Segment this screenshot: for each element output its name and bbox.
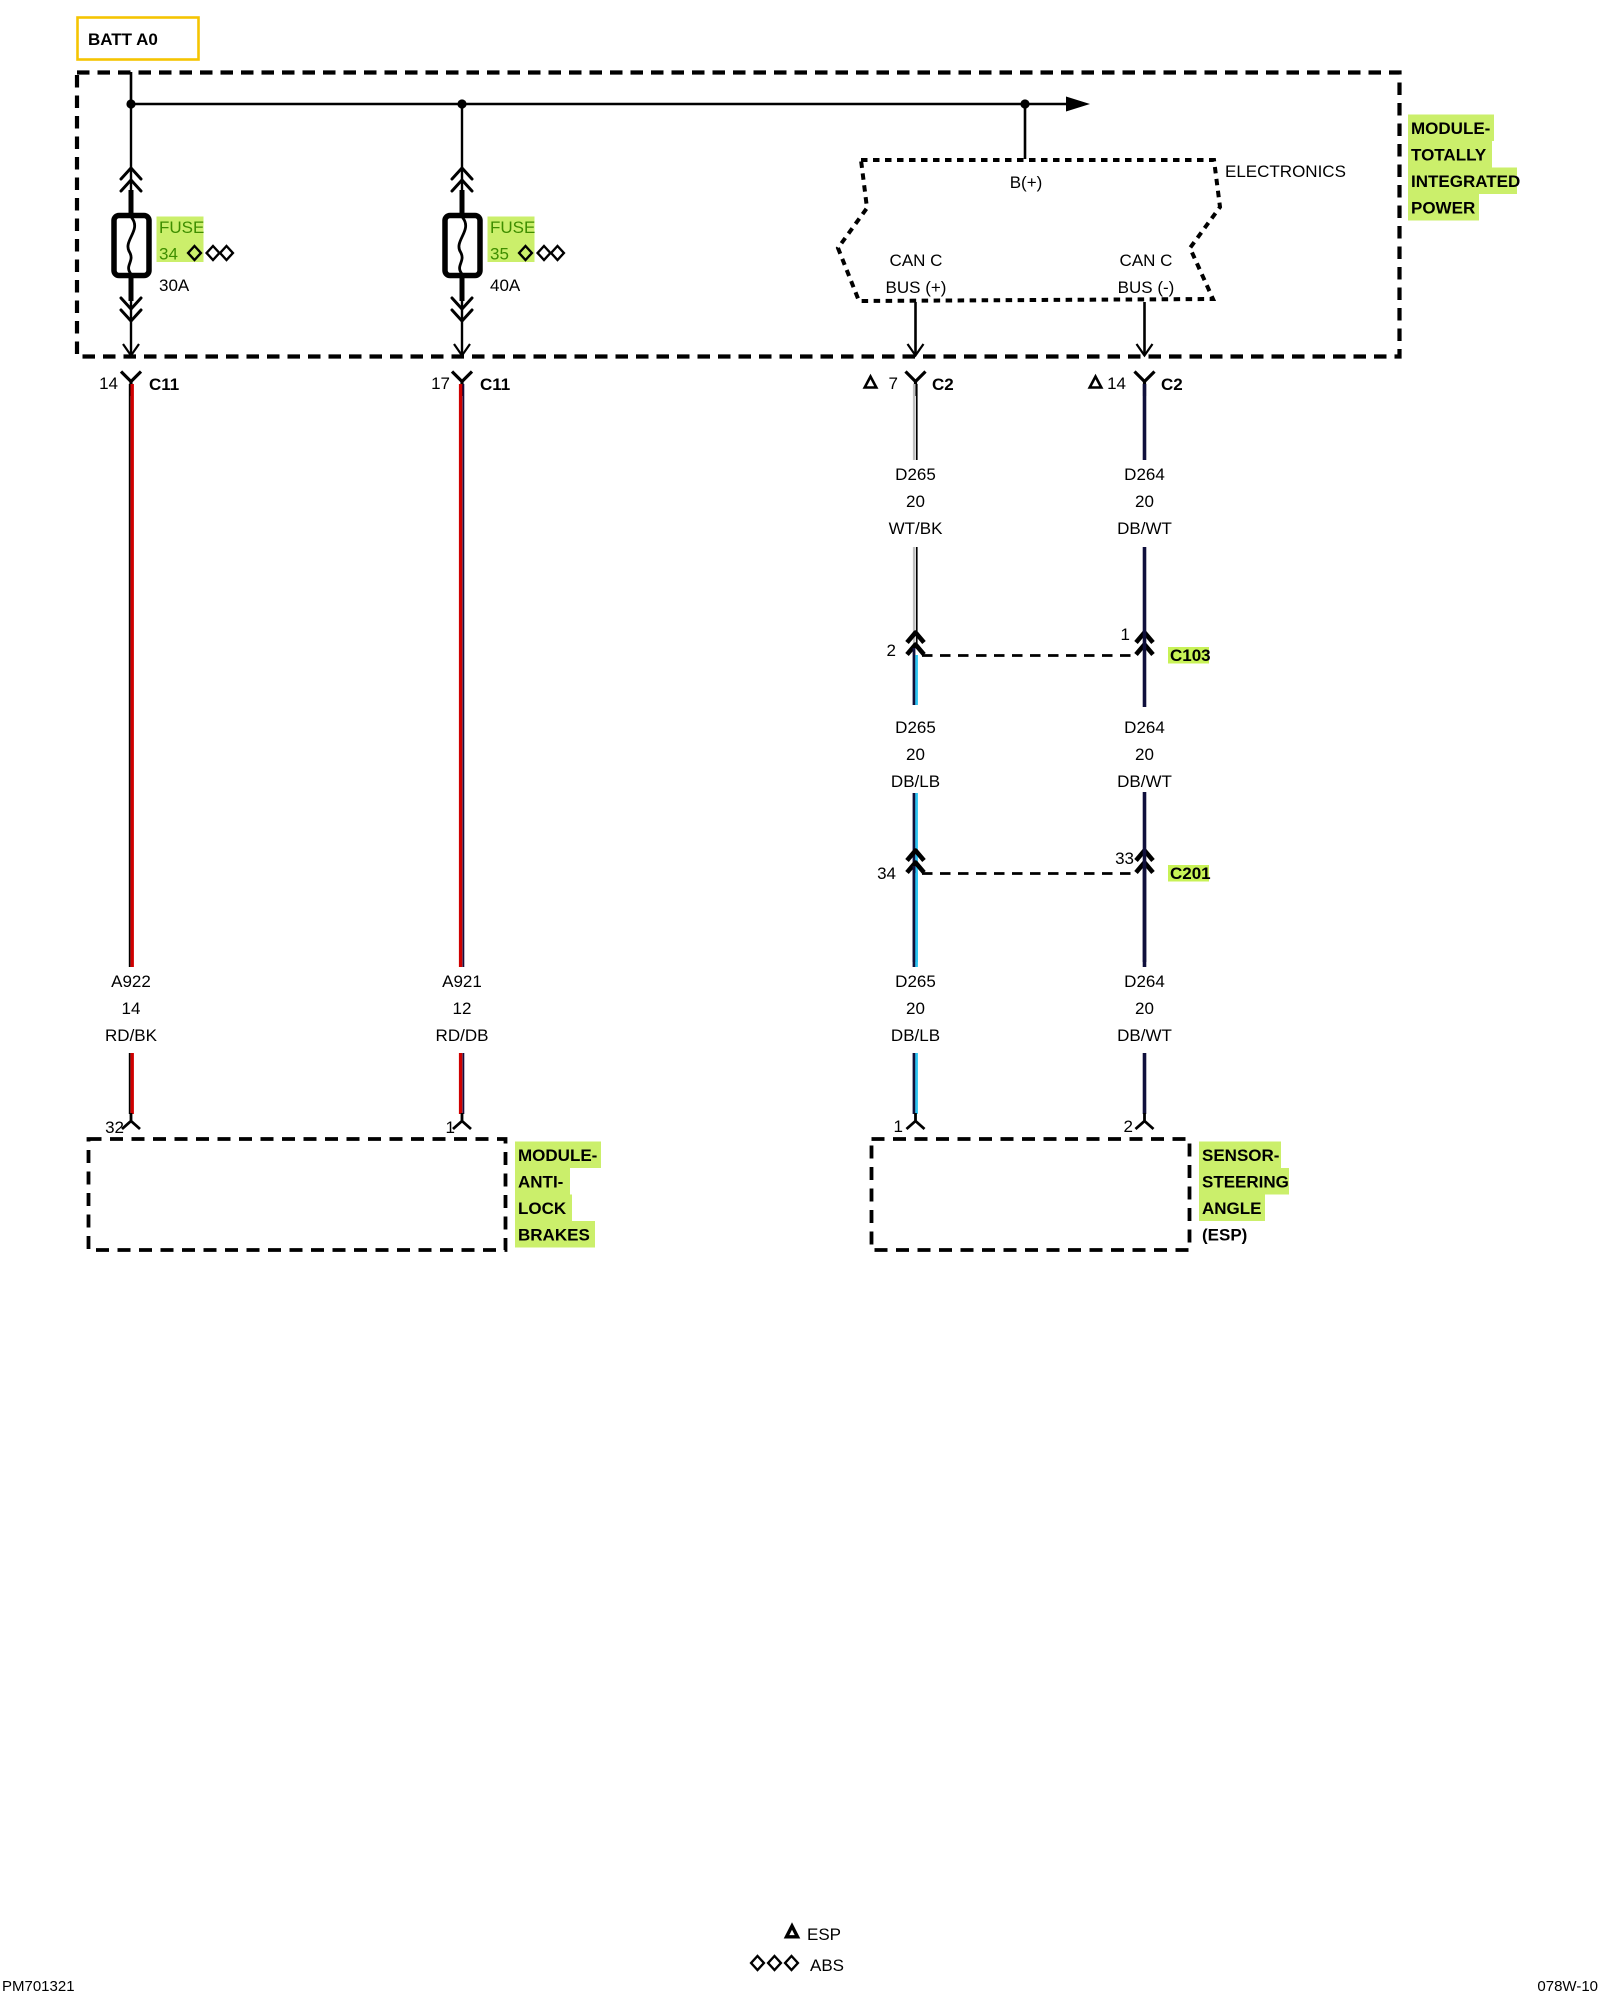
wire A922 lower segment (130, 1053, 133, 1114)
svg-text:DB/WT: DB/WT (1117, 519, 1172, 538)
wire D265 segment to C103 (914, 547, 917, 648)
node BATT A0 label box (78, 18, 199, 60)
module ABS dashed box (89, 1139, 506, 1250)
wire D264 upper labels (1117, 465, 1172, 538)
svg-text:LOCK: LOCK (518, 1199, 567, 1218)
connector pin 1 at ABS module (446, 1113, 471, 1137)
svg-text:DB/WT: DB/WT (1117, 772, 1172, 791)
svg-text:C11: C11 (149, 375, 179, 394)
wire D265 20 DB/LB segment below C103 (914, 648, 917, 962)
wire D265 20 DB/LB segment below C201 (914, 866, 917, 967)
fuse F34 ABS diamonds (188, 246, 233, 260)
legend ABS diamonds (751, 1956, 844, 1975)
module steering angle sensor dashed box (872, 1139, 1190, 1250)
junction dot at fuse 35 drop (457, 99, 466, 108)
svg-text:BRAKES: BRAKES (518, 1226, 590, 1245)
connector pin 32 at ABS module (105, 1113, 140, 1137)
svg-text:SENSOR-: SENSOR- (1202, 1146, 1279, 1165)
svg-text:D265: D265 (895, 465, 936, 484)
svg-text:FUSE: FUSE (159, 218, 204, 237)
wire A921 lower segment (461, 1053, 464, 1114)
legend ESP triangle (787, 1925, 842, 1944)
svg-text:20: 20 (906, 999, 925, 1018)
svg-text:17: 17 (431, 374, 450, 393)
fuse F34 assembly (114, 104, 149, 356)
wire main bus with arrow (131, 97, 1090, 112)
node ELECTRONICS banner (838, 160, 1346, 301)
wire A921 labels (436, 972, 489, 1045)
svg-text:A921: A921 (442, 972, 482, 991)
svg-text:C11: C11 (480, 375, 510, 394)
svg-text:RD/DB: RD/DB (436, 1026, 489, 1045)
fuse F35 ABS diamonds (519, 246, 564, 260)
wire D265 20 WT/BK segment (914, 384, 917, 460)
junction dot at fuse 34 drop (126, 99, 135, 108)
svg-text:C2: C2 (1161, 375, 1183, 394)
svg-text:14: 14 (1107, 374, 1126, 393)
svg-text:C2: C2 (932, 375, 954, 394)
wire D264 segment below C201 (1143, 866, 1147, 967)
svg-text:B(+): B(+) (1010, 173, 1043, 192)
svg-text:30A: 30A (159, 276, 190, 295)
connector C201 inline splice (877, 849, 1211, 883)
svg-text:PM701321: PM701321 (2, 1978, 75, 1995)
wire A921 12 RD/DB upper segment (461, 384, 464, 967)
svg-text:1: 1 (894, 1117, 903, 1136)
svg-text:40A: 40A (490, 276, 521, 295)
junction dot at B(+) drop (1020, 99, 1029, 108)
module TIPM name labels (green highlighted) (1408, 115, 1520, 221)
wire battery feed drop from BATT A0 (130, 72, 133, 104)
svg-text:CAN C: CAN C (1120, 251, 1173, 270)
wire B(+) drop into electronics (1024, 104, 1027, 159)
svg-text:35: 35 (490, 245, 509, 264)
wire D264 mid labels (1117, 707, 1172, 792)
svg-text:FUSE: FUSE (490, 218, 535, 237)
connector C11 pin 14 (99, 372, 179, 397)
svg-text:POWER: POWER (1411, 199, 1475, 218)
wire D264 20 DB/WT segment (1143, 384, 1147, 460)
wire D265 mid labels (891, 705, 940, 793)
svg-text:2: 2 (887, 641, 896, 660)
module ABS name labels (green highlighted) (515, 1142, 601, 1248)
svg-text:7: 7 (889, 374, 898, 393)
svg-text:20: 20 (906, 492, 925, 511)
svg-text:20: 20 (1135, 745, 1154, 764)
svg-text:20: 20 (1135, 492, 1154, 511)
fuse F34 labels (157, 217, 205, 296)
svg-text:ESP: ESP (807, 1925, 841, 1944)
svg-text:BATT A0: BATT A0 (88, 30, 158, 49)
svg-text:MODULE-: MODULE- (1411, 119, 1490, 138)
svg-text:STEERING: STEERING (1202, 1173, 1289, 1192)
connector C2 pin 7 with ESP triangle (865, 372, 954, 397)
module TIPM dashed boundary (77, 73, 1400, 357)
svg-text:D264: D264 (1124, 718, 1165, 737)
svg-text:(ESP): (ESP) (1202, 1226, 1247, 1245)
svg-text:CAN C: CAN C (890, 251, 943, 270)
connector pin 2 at steering sensor (1124, 1113, 1154, 1136)
svg-text:34: 34 (159, 245, 178, 264)
svg-text:TOTALLY: TOTALLY (1411, 146, 1487, 165)
svg-text:ELECTRONICS: ELECTRONICS (1225, 162, 1346, 181)
svg-text:33: 33 (1115, 849, 1134, 868)
wire D264 final segment (1143, 1053, 1147, 1114)
svg-text:20: 20 (1135, 999, 1154, 1018)
svg-text:BUS (+): BUS (+) (886, 278, 947, 297)
fuse F35 labels (488, 217, 536, 296)
connector C2 pin 14 with ESP triangle (1090, 372, 1183, 397)
svg-text:BUS (-): BUS (-) (1118, 278, 1175, 297)
svg-text:RD/BK: RD/BK (105, 1026, 158, 1045)
svg-text:078W-10: 078W-10 (1537, 1978, 1598, 1995)
connector pin 1 at steering sensor (894, 1113, 925, 1136)
wire D265 upper labels (889, 465, 943, 538)
svg-text:1: 1 (446, 1118, 455, 1137)
svg-text:DB/LB: DB/LB (891, 1026, 940, 1045)
svg-text:ABS: ABS (810, 1956, 844, 1975)
svg-text:DB/WT: DB/WT (1117, 1026, 1172, 1045)
fuse F35 assembly (445, 104, 480, 356)
wire D264 segment to C103 (1143, 547, 1147, 648)
svg-text:12: 12 (453, 999, 472, 1018)
svg-text:A922: A922 (111, 972, 151, 991)
module steering angle sensor labels (green highlighted) (1199, 1142, 1289, 1245)
wire D264 segment below C103 (1143, 648, 1147, 962)
svg-text:D265: D265 (895, 972, 936, 991)
svg-text:1: 1 (1121, 625, 1130, 644)
svg-text:14: 14 (99, 374, 118, 393)
connector C103 inline splice (887, 625, 1211, 665)
svg-text:D264: D264 (1124, 465, 1165, 484)
connector C11 pin 17 (431, 372, 510, 397)
wire A922 labels (105, 972, 158, 1045)
wire CAN C bus (-) drop to border (1137, 302, 1153, 356)
svg-text:34: 34 (877, 864, 896, 883)
svg-text:20: 20 (906, 745, 925, 764)
svg-text:WT/BK: WT/BK (889, 519, 943, 538)
wire D264 lower labels (1117, 972, 1172, 1045)
svg-text:C201: C201 (1170, 864, 1211, 883)
wire CAN C bus (+) drop to border (908, 302, 924, 356)
svg-text:ANTI-: ANTI- (518, 1173, 563, 1192)
svg-text:DB/LB: DB/LB (891, 772, 940, 791)
svg-text:14: 14 (122, 999, 141, 1018)
wire D265 final segment (914, 1053, 917, 1114)
svg-text:D264: D264 (1124, 972, 1165, 991)
svg-text:MODULE-: MODULE- (518, 1146, 597, 1165)
wire A922 14 RD/BK upper segment (130, 384, 133, 967)
svg-text:2: 2 (1124, 1117, 1133, 1136)
svg-text:32: 32 (105, 1118, 124, 1137)
wire D265 lower labels (891, 972, 940, 1045)
svg-text:INTEGRATED: INTEGRATED (1411, 172, 1520, 191)
svg-text:D265: D265 (895, 718, 936, 737)
svg-text:ANGLE: ANGLE (1202, 1199, 1262, 1218)
svg-text:C103: C103 (1170, 646, 1211, 665)
